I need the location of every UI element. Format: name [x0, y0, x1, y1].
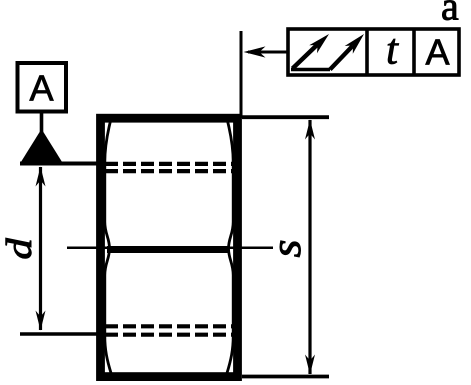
datum symbol box	[18, 63, 67, 112]
dimension d bottom arrowhead	[36, 311, 46, 331]
leader line from frame	[248, 51, 287, 54]
top extension line for s	[242, 115, 329, 119]
svg-text:A: A	[426, 32, 450, 73]
svg-text:A: A	[30, 68, 54, 109]
lower hidden double dashed line row 2	[105, 333, 236, 337]
middle junction thick line	[107, 246, 228, 253]
total runout symbol right arrow	[330, 34, 364, 70]
leader arrowhead	[244, 46, 266, 57]
datum baseline	[20, 162, 97, 166]
datum triangle (filled)	[20, 129, 63, 164]
leader target extension line (right edge extension)	[240, 31, 243, 118]
upper hidden double dashed line row 1	[105, 162, 236, 166]
frame divider 1	[365, 28, 369, 77]
svg-text:d: d	[0, 238, 39, 260]
dimension d top arrowhead	[36, 167, 46, 187]
frame divider 2	[412, 28, 416, 77]
svg-text:a: a	[441, 0, 459, 29]
lower hidden double dashed line row 1	[105, 324, 236, 328]
left surface profile curve	[105, 121, 111, 373]
datum symbol stem	[40, 111, 44, 132]
bottom extension line for s	[242, 375, 329, 379]
cylinder outline (tolerance zone rectangle)	[101, 118, 238, 376]
total runout symbol left arrow	[293, 34, 330, 69]
right surface profile curve	[227, 121, 233, 373]
dimension s top arrowhead	[305, 120, 315, 140]
svg-text:t: t	[386, 27, 399, 74]
dimension d line	[39, 167, 42, 330]
centerline	[67, 247, 273, 250]
dimension s line	[308, 120, 311, 374]
feature control frame outer box	[288, 29, 459, 75]
dimension s bottom arrowhead	[305, 355, 315, 375]
total runout symbol baseline	[291, 68, 330, 72]
upper hidden double dashed line row 2	[105, 169, 236, 173]
svg-text:s: s	[263, 240, 310, 258]
lower extension line for d	[20, 332, 97, 336]
